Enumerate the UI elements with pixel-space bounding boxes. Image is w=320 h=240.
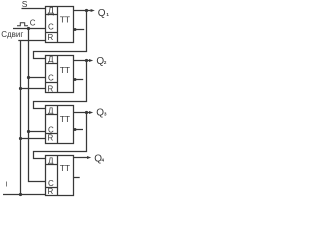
svg-text:R: R [48,84,54,93]
svg-text:C: C [48,23,54,32]
svg-text:R: R [48,33,54,42]
svg-text:R: R [48,187,54,196]
svg-text:3: 3 [104,112,107,117]
svg-text:C: C [30,18,36,27]
svg-text:ТТ: ТТ [60,163,71,173]
svg-text:2: 2 [104,60,107,65]
svg-text:ТТ: ТТ [60,114,71,124]
svg-text:Сдвиг: Сдвиг [1,30,23,39]
svg-text:1: 1 [106,12,109,17]
svg-text:Д: Д [48,156,54,165]
svg-text:Д: Д [48,55,54,64]
svg-text:Д: Д [48,106,54,115]
svg-text:ТТ: ТТ [60,15,71,25]
svg-text:4: 4 [102,158,105,163]
svg-text:R: R [48,133,54,142]
svg-text:Q: Q [98,8,106,19]
svg-text:ТТ: ТТ [60,65,71,75]
svg-text:Д: Д [48,6,54,16]
svg-text:C: C [48,74,54,83]
svg-text:S: S [22,0,28,9]
svg-text:I: I [6,182,8,189]
